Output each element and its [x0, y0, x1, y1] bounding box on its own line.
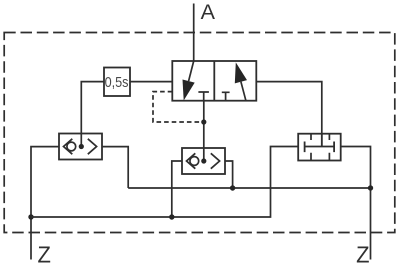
two-pressure valve V3 outlet internal line	[321, 134, 323, 147]
valve U1 3/2 body	[172, 61, 256, 101]
shuttle valve V2 (centre) body	[182, 148, 225, 174]
svg-text:A: A	[201, 0, 216, 24]
shuttle valve V1 ball	[67, 142, 76, 151]
wire: centre shuttle right port down to upper bus	[225, 161, 233, 188]
timer T1 box	[104, 68, 130, 97]
wire: upper bus	[128, 187, 370, 189]
shuttle valve V1 outlet node dot	[79, 144, 84, 149]
two-pressure valve V3 body	[298, 134, 341, 161]
enclosure dashed boundary	[4, 33, 395, 233]
wire: valve right port to two-pressure valve top	[256, 82, 322, 147]
node: junction dot upper bus / right Z	[368, 185, 373, 190]
shuttle valve V2 right seat	[211, 153, 220, 168]
valve U1 left position blocked port T	[198, 92, 209, 101]
svg-text:Z: Z	[356, 242, 369, 268]
shuttle valve V1 right seat	[88, 139, 97, 154]
svg-text:Z: Z	[38, 242, 51, 268]
two-pressure valve V3 top seats	[311, 134, 329, 140]
wire: valve bottom port down to centre shuttle	[203, 101, 205, 161]
wire: two-pressure valve right port to right Z line	[341, 147, 371, 260]
wire: timer input from left shuttle, corner at (81.3,81.6)	[81, 82, 104, 147]
wire: lower bus to two-pressure valve left port	[31, 147, 298, 218]
wire: dashed pilot line from valve left side	[153, 92, 204, 122]
shuttle valve V2 ball	[190, 157, 199, 166]
shuttle valve V2 outlet node dot	[201, 158, 206, 163]
shuttle valve V2 left seat	[187, 153, 196, 168]
two-pressure valve V3 bottom seats	[311, 153, 329, 161]
node: junction dot pilot/bottom wire	[201, 119, 206, 124]
valve U1 right position blocked port T	[222, 92, 230, 100]
valve U1 left position flow path arrow	[189, 61, 194, 81]
wire: left shuttle right port down to upper bus	[102, 147, 128, 188]
svg-text:0,5s: 0,5s	[105, 75, 129, 91]
valve U1 right position flow path arrow	[241, 82, 246, 101]
node: junction dot left Z	[28, 214, 33, 219]
wire: centre shuttle left port down to lower bus	[172, 161, 182, 217]
shuttle valve V1 left seat	[64, 139, 73, 154]
node: junction dot upper bus / centre shuttle	[230, 185, 235, 190]
node: junction dot lower bus / centre shuttle	[169, 214, 174, 219]
wire: port A vertical line	[193, 4, 195, 62]
two-pressure valve V3 shuttle piston (H shape)	[305, 142, 335, 153]
shuttle valve V1 (left) body	[59, 134, 102, 160]
wire: timer output to valve left port	[130, 81, 172, 83]
wire: left shuttle left port to left Z line	[31, 147, 59, 260]
